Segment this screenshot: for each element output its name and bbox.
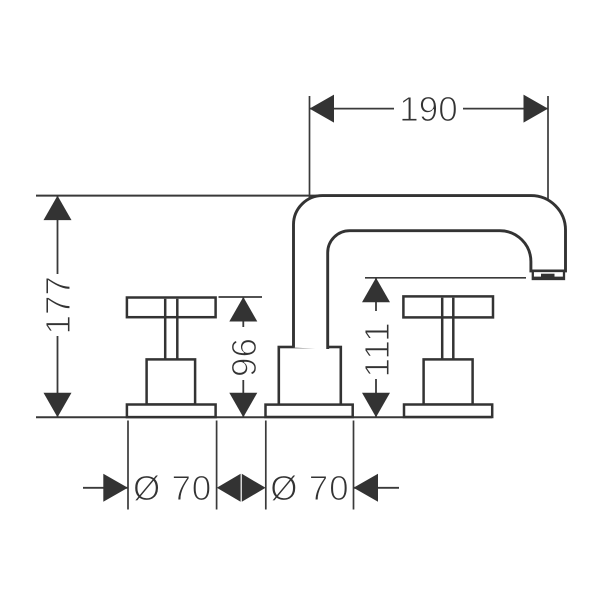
arrow 190 left xyxy=(310,95,335,123)
text gap 177 xyxy=(40,274,75,336)
svg-text:177: 177 xyxy=(39,276,78,334)
extension line dia70 left-left xyxy=(127,421,129,510)
right handle cross bar xyxy=(403,296,493,317)
dimension line 111 xyxy=(375,278,377,417)
extension line 96 top xyxy=(219,296,263,298)
svg-text:96: 96 xyxy=(225,338,264,377)
dimension tail dia70 right xyxy=(354,487,400,489)
arrow 96 down xyxy=(229,393,257,418)
arrow 111 down xyxy=(362,393,390,418)
arrow dia70 left outer xyxy=(103,474,128,502)
reference line 111 (outlet height) xyxy=(365,277,526,279)
left handle stem left line xyxy=(164,299,167,360)
dimension line 190 xyxy=(310,108,549,110)
right handle base plate xyxy=(404,405,492,418)
extension line 190 left xyxy=(309,96,311,208)
text gap 96 xyxy=(226,327,261,380)
left handle cross bar xyxy=(127,298,216,318)
aerator outline xyxy=(533,271,564,279)
right handle stem right line xyxy=(452,298,455,360)
arrow dia70 right outer xyxy=(354,474,379,502)
left handle base plate xyxy=(127,405,216,418)
extension line dia70 left-right xyxy=(216,421,218,510)
dimension line 96 xyxy=(242,297,244,417)
svg-text:Ø 70: Ø 70 xyxy=(133,469,212,508)
left handle stem right line xyxy=(176,299,179,360)
right handle body xyxy=(424,359,473,404)
arrow 177 up xyxy=(44,196,72,221)
dimension line 177 xyxy=(57,196,59,418)
arrow 96 up xyxy=(229,297,257,322)
svg-text:190: 190 xyxy=(399,90,457,129)
aerator middle dash xyxy=(541,274,555,277)
top reference line (spout height datum) xyxy=(36,195,323,197)
arrow 190 right xyxy=(524,95,549,123)
dimension tail dia70 left xyxy=(83,487,128,489)
text gap 190 xyxy=(394,92,463,125)
svg-text:111: 111 xyxy=(358,322,397,378)
arrow dia70 diamond right xyxy=(242,474,266,502)
spout tube outline xyxy=(294,196,566,349)
text gap 111 xyxy=(359,311,394,379)
extension line dia70 right-right xyxy=(353,421,355,510)
bottom counter line (mounting surface) xyxy=(36,416,492,418)
arrow 177 down xyxy=(44,393,72,418)
right handle stem left line xyxy=(441,298,444,360)
spout base body xyxy=(279,347,341,405)
extension line dia70 right-left xyxy=(265,421,267,510)
aerator bottom band xyxy=(534,277,564,280)
extension line 190 right xyxy=(547,96,549,208)
svg-text:Ø 70: Ø 70 xyxy=(270,469,349,508)
left handle body xyxy=(147,359,196,404)
arrow 111 up xyxy=(362,278,390,303)
arrow dia70 diamond left xyxy=(217,474,241,502)
spout base plate xyxy=(266,405,353,417)
